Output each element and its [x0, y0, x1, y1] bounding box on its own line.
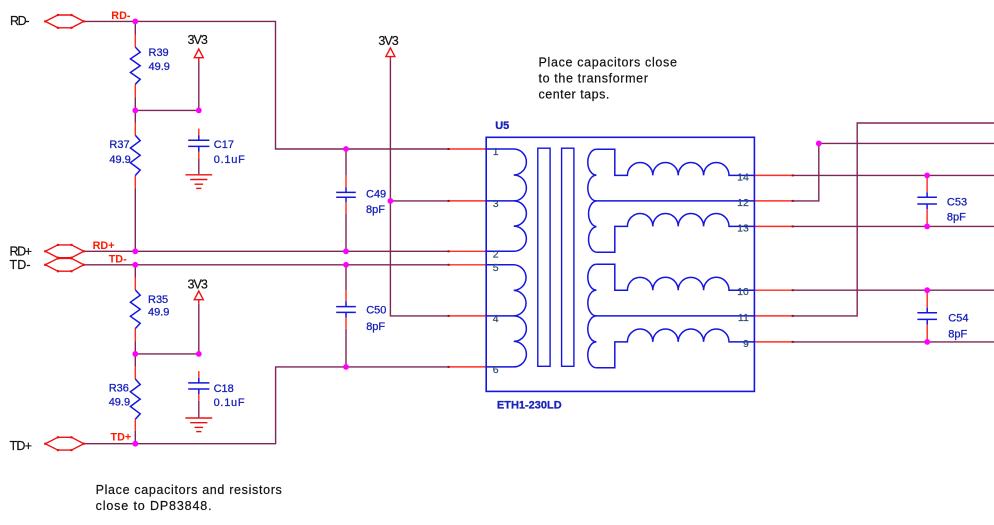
svg-text:8pF: 8pF — [366, 204, 385, 216]
wire pin13 — [793, 225, 994, 227]
svg-text:9: 9 — [743, 338, 749, 350]
wire pin9 — [793, 341, 994, 343]
svg-text:11: 11 — [738, 312, 749, 324]
svg-text:3V3: 3V3 — [378, 34, 398, 48]
svg-text:0.1uF: 0.1uF — [214, 397, 245, 409]
svg-text:TD-: TD- — [10, 258, 31, 272]
svg-text:C18: C18 — [214, 383, 234, 395]
power 3V3 symbol C — [188, 277, 208, 303]
svg-text:to the transformer: to the transformer — [539, 72, 648, 86]
svg-text:8pF: 8pF — [366, 321, 385, 333]
U5 core bar left — [538, 148, 550, 366]
U5 winding pin 14 — [596, 149, 754, 175]
ground under C17 — [185, 175, 212, 189]
wire pin10 — [793, 289, 994, 291]
pin stub U5-9 — [754, 341, 792, 343]
wire 3V3 to C17 node — [198, 62, 200, 111]
junction pin12 corner — [816, 141, 822, 147]
svg-text:TD-: TD- — [109, 254, 127, 266]
svg-text:C53: C53 — [947, 196, 967, 208]
svg-text:0.1uF: 0.1uF — [214, 154, 245, 166]
wire net RD- top — [84, 21, 449, 149]
wire node R39/R37/C17 — [135, 109, 199, 111]
port RD+ — [10, 244, 85, 259]
junction 3V3 C18 — [196, 351, 202, 357]
pin stub U5-4 — [449, 315, 487, 317]
capacitor C17 — [188, 129, 209, 159]
pin end markers — [448, 148, 450, 150]
svg-text:close to DP83848.: close to DP83848. — [96, 499, 212, 513]
svg-text:8pF: 8pF — [947, 211, 966, 223]
junction C50 bottom — [343, 364, 349, 370]
junction 3V3 C17 — [196, 108, 202, 114]
U5 core bar right — [562, 148, 574, 366]
resistor R36 — [130, 366, 140, 431]
wire R36 top lead — [134, 354, 136, 366]
wire C17 to ground — [198, 158, 200, 174]
U5 winding pins 4-6 — [486, 316, 526, 367]
wire R37 bottom to RD+ — [134, 189, 136, 252]
port TD+ — [10, 436, 85, 453]
junction C53 top — [924, 173, 930, 179]
svg-text:49.9: 49.9 — [109, 154, 130, 166]
pin stub U5-14 — [754, 174, 792, 176]
note place capacitors and resistors — [96, 483, 282, 513]
pin stub U5-11 — [754, 315, 792, 317]
junction C54 top — [924, 287, 930, 293]
capacitor C18 — [188, 371, 209, 401]
U5 winding pin 13 — [596, 213, 754, 252]
pin stub U5-12 — [754, 200, 792, 202]
wire C49 bottom — [345, 214, 347, 252]
pin stub U5-13 — [754, 225, 792, 227]
wire pin14 — [793, 174, 994, 176]
U5 winding arcs 14-12 — [588, 149, 597, 201]
svg-text:TD+: TD+ — [10, 439, 33, 453]
capacitor C54 — [917, 290, 937, 342]
svg-text:10: 10 — [737, 286, 749, 298]
junction 3V3 pin3 — [388, 198, 394, 204]
svg-text:4: 4 — [493, 313, 499, 325]
svg-text:U5: U5 — [495, 120, 509, 132]
pin stub U5-10 — [754, 289, 792, 291]
wire R39 bottom lead — [134, 98, 136, 111]
junction C53 bottom — [924, 224, 930, 230]
svg-text:TD+: TD+ — [111, 432, 132, 444]
svg-text:1: 1 — [493, 146, 499, 158]
wire C49 top — [345, 149, 347, 176]
wire C18 to ground — [198, 401, 200, 418]
junction C49 bottom — [343, 248, 349, 254]
svg-text:Place capacitors and resistors: Place capacitors and resistors — [96, 483, 282, 497]
U5 winding pins 3-2 — [486, 201, 526, 251]
svg-text:R35: R35 — [148, 294, 168, 306]
svg-text:RD-: RD- — [10, 14, 30, 28]
svg-text:49.9: 49.9 — [109, 397, 130, 409]
wire C50 top — [345, 265, 347, 290]
pin stub U5-3 — [449, 200, 487, 202]
wire R39 top lead — [134, 21, 136, 34]
svg-text:C49: C49 — [366, 189, 386, 201]
U5 winding pin 10 — [596, 264, 754, 290]
U5 winding pins 1-3 — [486, 149, 526, 201]
svg-text:3V3: 3V3 — [188, 33, 208, 47]
svg-text:RD-: RD- — [111, 10, 131, 22]
U5 winding pins 5-4 — [486, 265, 526, 316]
svg-text:C54: C54 — [948, 313, 968, 325]
note place capacitors close — [539, 56, 677, 102]
U5 winding pin 12 line — [596, 200, 754, 202]
pin stub U5-5 — [449, 264, 487, 266]
wire R35 top lead — [134, 265, 136, 278]
port TD- — [10, 257, 85, 272]
svg-text:Place capacitors close: Place capacitors close — [539, 56, 677, 70]
wire pin3 branch — [390, 200, 448, 202]
resistor R39 — [130, 35, 140, 98]
svg-text:8pF: 8pF — [948, 329, 967, 341]
wire pin11 up — [793, 123, 994, 316]
svg-text:center taps.: center taps. — [539, 87, 610, 101]
capacitor C50 — [336, 290, 356, 329]
capacitor C49 — [336, 176, 356, 214]
svg-text:14: 14 — [737, 171, 749, 183]
capacitor C53 — [917, 175, 937, 226]
svg-text:R39: R39 — [149, 47, 169, 59]
svg-text:3: 3 — [493, 198, 499, 210]
wire 3V3 to C18 node — [198, 303, 200, 354]
U5 winding pin 9 — [596, 329, 754, 368]
junction TD- R35 — [132, 262, 138, 268]
wire R37 top lead — [134, 110, 136, 122]
wire node R35/R36/C18 — [135, 353, 199, 355]
junction TD+ R36 — [132, 441, 138, 447]
pin stub U5-6 — [449, 366, 487, 368]
pin stub U5-2 — [449, 250, 487, 252]
wire R36 bottom to TD+ — [134, 431, 136, 444]
wire pin12 up — [793, 143, 819, 201]
junction R35 R36 C18 — [132, 351, 138, 357]
svg-text:49.9: 49.9 — [148, 307, 169, 319]
port RD- — [10, 14, 85, 29]
svg-text:C50: C50 — [366, 305, 386, 317]
junction RD+ R37 — [132, 248, 138, 254]
junction RD- R39 — [132, 19, 138, 25]
U5 winding arcs 10-11 — [588, 264, 597, 316]
junction C50 top — [343, 262, 349, 268]
svg-text:RD+: RD+ — [93, 240, 115, 252]
svg-text:2: 2 — [493, 249, 499, 261]
svg-text:5: 5 — [493, 262, 499, 274]
wire 3V3 rail to pin4 — [390, 59, 448, 316]
U5 winding pin 11 line — [596, 315, 754, 317]
wire C50 bottom — [345, 329, 347, 367]
svg-text:49.9: 49.9 — [149, 61, 170, 73]
junction C54 bottom — [924, 339, 930, 345]
wire top right — [819, 142, 994, 144]
svg-text:RD+: RD+ — [10, 245, 33, 259]
U5 winding arcs 12-13 — [589, 201, 597, 252]
wire net TD+ to pin6 — [84, 367, 449, 444]
svg-text:3V3: 3V3 — [188, 277, 208, 291]
svg-text:13: 13 — [737, 222, 749, 234]
wire net RD+ — [84, 250, 449, 252]
power 3V3 symbol A — [188, 33, 208, 61]
svg-text:12: 12 — [737, 197, 749, 209]
resistor R35 — [130, 278, 140, 342]
svg-text:R37: R37 — [109, 139, 129, 151]
wire R35 bottom lead — [134, 342, 136, 354]
svg-text:ETH1-230LD: ETH1-230LD — [497, 399, 562, 411]
svg-text:R36: R36 — [109, 383, 129, 395]
U5 winding arcs 11-9 — [588, 316, 597, 368]
pin stub U5-1 — [449, 148, 487, 150]
wire net TD- — [84, 264, 449, 266]
junction C49 top — [343, 146, 349, 152]
svg-text:6: 6 — [493, 364, 499, 376]
junction R39 R37 C17 — [132, 108, 138, 114]
resistor R37 — [130, 123, 140, 189]
svg-text:C17: C17 — [214, 139, 234, 151]
transformer U5 body — [486, 137, 754, 391]
power 3V3 symbol B — [378, 34, 398, 59]
ground under C18 — [185, 418, 212, 432]
